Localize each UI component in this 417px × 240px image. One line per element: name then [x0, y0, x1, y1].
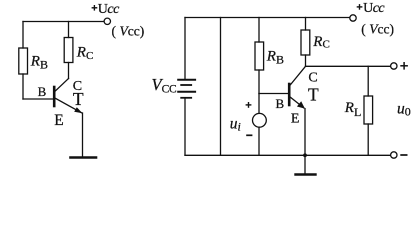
terminal +Ucc left circuit — [104, 18, 110, 24]
wire: bottom rail — [185, 154, 391, 156]
wire: RL top lead — [367, 66, 369, 96]
transistor T right: collector lead — [290, 66, 306, 85]
source ui — [253, 113, 267, 127]
transistor T right: base bar — [288, 84, 291, 105]
svg-text:Ucc: Ucc — [363, 1, 385, 16]
svg-text:B: B — [276, 96, 285, 111]
wire: RC branch top right — [305, 18, 307, 31]
transistor T left: emitter lead with arrow — [55, 98, 83, 113]
label +Ucc right — [357, 1, 386, 16]
svg-text:T: T — [73, 89, 84, 109]
label plus of ui — [246, 102, 252, 108]
label +Ucc left — [92, 2, 121, 17]
wire: source to bottom rail — [258, 127, 260, 155]
svg-text:T: T — [308, 84, 319, 104]
wire: base wire right — [259, 93, 289, 95]
terminal +Ucc right circuit — [350, 15, 356, 21]
svg-text:RL: RL — [344, 100, 362, 119]
svg-text:E: E — [54, 112, 63, 129]
label plus of output — [400, 62, 408, 70]
label minus of ui — [246, 134, 252, 136]
svg-text:VCC: VCC — [152, 75, 177, 95]
resistor RL — [364, 96, 373, 124]
wire: emitter vertical right — [304, 109, 306, 156]
wire: emitter vertical left — [82, 113, 84, 156]
wire: left circuit top rail — [23, 21, 104, 23]
wire: ground lead right — [304, 155, 306, 173]
label minus of output — [400, 154, 407, 156]
svg-text:B: B — [38, 84, 47, 99]
resistor RB right — [255, 42, 264, 70]
svg-text:u0: u0 — [397, 100, 411, 118]
terminal output plus — [391, 63, 397, 69]
svg-text:RC: RC — [312, 34, 330, 51]
wire: base node down to source ui — [258, 94, 260, 114]
terminal output minus — [391, 152, 397, 158]
ground left — [71, 156, 97, 159]
wire: RL bottom lead — [367, 124, 369, 155]
svg-text:(Vcc): (Vcc) — [361, 21, 394, 36]
resistor RC left — [64, 38, 73, 63]
ground right — [296, 173, 316, 175]
battery VCC — [178, 80, 195, 98]
wire: RB branch top right — [258, 18, 260, 43]
svg-text:RB: RB — [30, 53, 48, 71]
svg-text:Ucc: Ucc — [98, 2, 120, 17]
svg-text:(Vcc): (Vcc) — [112, 23, 145, 38]
svg-text:E: E — [291, 112, 300, 127]
svg-text:RC: RC — [76, 44, 94, 62]
transistor T left: base bar — [53, 87, 56, 106]
wire: middle vertical (supply branch) — [220, 18, 222, 156]
wire: left vertical upper to RB — [22, 22, 24, 49]
junction dot emitter-ground node — [303, 153, 307, 157]
wire: collector vertical left — [68, 63, 70, 79]
transistor T right: emitter lead with arrow — [290, 97, 305, 109]
wire: output top wire — [306, 65, 391, 67]
resistor RB left — [19, 48, 28, 74]
wire: RB to base node — [258, 70, 260, 94]
wire: battery top lead — [184, 18, 186, 79]
wire: RC to collector node — [305, 55, 307, 66]
wire: RC branch top left — [68, 22, 70, 38]
wire: RB to base corner — [22, 74, 24, 99]
resistor RC right — [301, 30, 310, 55]
wire: base wire left — [23, 98, 54, 100]
svg-text:RB: RB — [266, 49, 284, 67]
svg-text:ui: ui — [230, 116, 241, 134]
transistor T left: collector lead — [55, 79, 69, 92]
wire: right circuit top rail — [185, 17, 350, 19]
wire: battery bottom lead — [184, 98, 186, 155]
